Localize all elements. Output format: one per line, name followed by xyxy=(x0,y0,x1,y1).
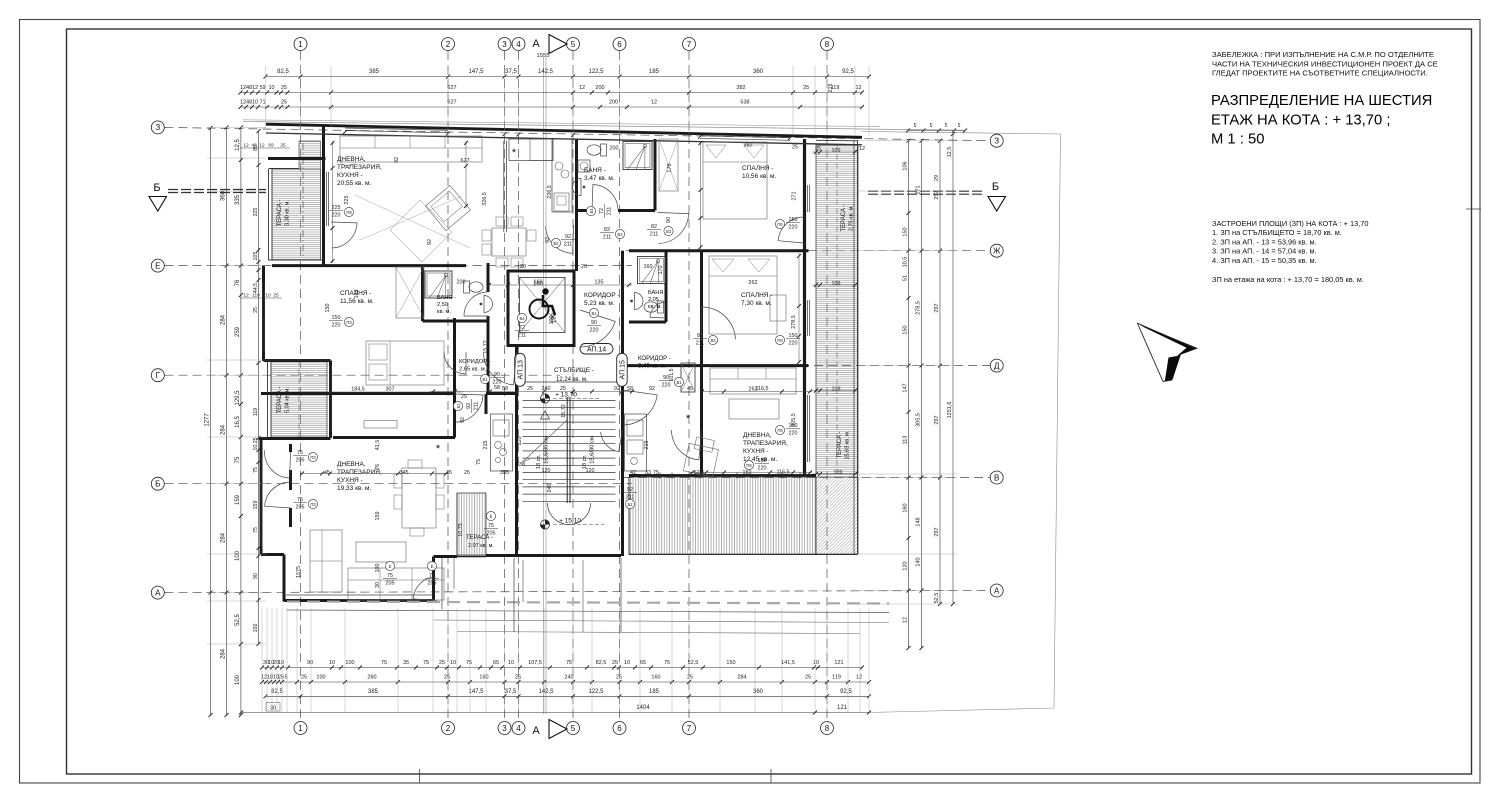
svg-text:БАНЯ -: БАНЯ - xyxy=(437,295,456,301)
svg-text:АП.15: АП.15 xyxy=(620,360,627,379)
svg-text:кв. м.: кв. м. xyxy=(437,309,451,315)
left dim col b xyxy=(240,127,242,715)
svg-text:100: 100 xyxy=(253,624,259,633)
bottom terrace hatch xyxy=(629,477,816,554)
svg-text:100: 100 xyxy=(235,674,241,685)
svg-text:4: 4 xyxy=(516,724,521,733)
svg-text:150: 150 xyxy=(789,333,798,339)
svg-text:382: 382 xyxy=(743,143,752,149)
svg-text:3: 3 xyxy=(502,40,507,49)
toilet bath250 xyxy=(464,281,484,293)
svg-text:25: 25 xyxy=(527,386,533,392)
wall bath347 bottom xyxy=(577,209,593,212)
grid line 1 xyxy=(300,51,302,721)
grid bubble 1 top xyxy=(294,38,307,51)
svg-text:20,55 кв. м.: 20,55 кв. м. xyxy=(337,180,371,187)
svg-text:76: 76 xyxy=(375,464,381,470)
svg-text:284: 284 xyxy=(221,648,227,659)
kitchen14 counter xyxy=(509,139,553,161)
svg-text:ДНЕВНА,: ДНЕВНА, xyxy=(337,461,366,468)
window right 3 xyxy=(807,395,809,462)
svg-text:59: 59 xyxy=(259,85,265,91)
svg-text:100: 100 xyxy=(235,550,241,561)
door kitchen14-corridor xyxy=(546,225,574,253)
svg-text:72: 72 xyxy=(599,208,605,214)
svg-text:Б2: Б2 xyxy=(627,502,633,507)
terrace 5.04 hatch xyxy=(271,360,327,437)
svg-text:45: 45 xyxy=(687,386,693,392)
svg-text:ЕТАЖ НА КОТА : + 13,70 ;: ЕТАЖ НА КОТА : + 13,70 ; xyxy=(1211,113,1390,129)
svg-text:Е: Е xyxy=(155,261,160,270)
grid line Ж right xyxy=(626,250,990,252)
svg-text:25: 25 xyxy=(280,143,286,149)
label AP.13 xyxy=(515,353,526,386)
svg-text:15,6/30 см: 15,6/30 см xyxy=(590,436,596,464)
svg-text:1: 1 xyxy=(298,40,303,49)
svg-text:25: 25 xyxy=(803,85,809,91)
left dim col 1277 xyxy=(210,128,212,715)
interior vchain x700top xyxy=(700,141,702,249)
svg-text:25: 25 xyxy=(273,293,279,299)
grid line 2 xyxy=(447,51,449,721)
svg-text:3,40 кв. м.: 3,40 кв. м. xyxy=(638,364,667,370)
svg-text:215: 215 xyxy=(483,441,489,450)
svg-text:7: 7 xyxy=(687,40,692,49)
svg-text:АП.13: АП.13 xyxy=(518,360,525,379)
svg-text:69: 69 xyxy=(268,143,274,149)
lower slab edge 1 xyxy=(287,610,889,613)
svg-text:25: 25 xyxy=(612,660,618,666)
svg-text:48: 48 xyxy=(251,143,257,149)
svg-text:5,23 кв. м.: 5,23 кв. м. xyxy=(584,300,615,307)
svg-text:П3: П3 xyxy=(346,320,352,325)
window top living room xyxy=(345,128,448,130)
window bottom living 12.45 xyxy=(640,473,812,475)
svg-text:297: 297 xyxy=(934,527,940,536)
svg-text:92: 92 xyxy=(394,157,400,163)
svg-text:Б4: Б4 xyxy=(589,208,594,214)
svg-text:160: 160 xyxy=(534,280,543,286)
bottom dimension row 2 xyxy=(262,681,869,683)
svg-text:82: 82 xyxy=(697,333,703,339)
svg-text:220: 220 xyxy=(758,466,767,472)
wall step terrace2 top xyxy=(264,359,331,362)
svg-text:240: 240 xyxy=(547,484,553,493)
svg-text:П3: П3 xyxy=(310,455,316,460)
svg-text:3,30 кв. м.: 3,30 кв. м. xyxy=(285,200,291,226)
svg-text:160: 160 xyxy=(651,675,660,681)
svg-text:205: 205 xyxy=(296,505,305,511)
svg-text:1555: 1555 xyxy=(537,53,550,59)
svg-text:12: 12 xyxy=(259,143,265,149)
svg-text:12: 12 xyxy=(856,675,862,681)
kitchen15 counter xyxy=(625,414,647,471)
svg-text:В1: В1 xyxy=(591,311,597,316)
svg-text:1277: 1277 xyxy=(205,413,211,427)
svg-text:30: 30 xyxy=(375,582,381,588)
svg-text:6: 6 xyxy=(617,724,622,733)
svg-text:215: 215 xyxy=(644,441,650,450)
svg-text:6: 6 xyxy=(617,40,622,49)
svg-text:КОРИДОР -: КОРИДОР - xyxy=(584,292,620,299)
wall kitchen13 area xyxy=(485,394,488,414)
svg-text:ЧАСТИ НА ТЕХНИЧЕСКИЯ ИНВЕСТИЦИ: ЧАСТИ НА ТЕХНИЧЕСКИЯ ИНВЕСТИЦИОНЕН ПРОЕК… xyxy=(1212,59,1438,68)
svg-text:150: 150 xyxy=(325,304,331,313)
grid bubble В right xyxy=(990,471,1003,484)
wall top exterior xyxy=(266,124,862,137)
level mark 13.70 xyxy=(540,394,549,403)
svg-text:ТЕРАСА -: ТЕРАСА - xyxy=(837,431,843,458)
svg-text:8: 8 xyxy=(825,724,830,733)
svg-text:65: 65 xyxy=(640,660,646,666)
sofa living 20.55 xyxy=(340,136,482,162)
svg-text:10,5: 10,5 xyxy=(903,257,909,268)
interior vchain x332 xyxy=(332,141,334,263)
svg-text:5: 5 xyxy=(945,123,948,129)
svg-text:П6: П6 xyxy=(777,222,783,227)
svg-text:92: 92 xyxy=(565,234,571,240)
wall bottom right apt (В) xyxy=(629,474,816,477)
svg-text:278,5: 278,5 xyxy=(791,315,797,329)
grid bubble 8 bottom xyxy=(821,722,834,735)
label AP.15 xyxy=(617,353,628,386)
wall stair right xyxy=(621,251,624,556)
svg-text:30: 30 xyxy=(270,706,276,712)
door bath250 c xyxy=(464,292,488,316)
svg-text:1251,6: 1251,6 xyxy=(947,402,953,419)
svg-text:92,5: 92,5 xyxy=(842,69,854,75)
washer bath 3.47 xyxy=(578,160,590,172)
svg-text:92: 92 xyxy=(627,487,633,493)
bottom terrace bottom edge xyxy=(629,554,858,556)
svg-text:1. ЗП на СТЪЛБИЩЕТО = 18,70 кв: 1. ЗП на СТЪЛБИЩЕТО = 18,70 кв. м. xyxy=(1212,228,1342,237)
svg-text:кв. м.: кв. м. xyxy=(648,304,662,310)
wall E (living/bedroom left) xyxy=(272,264,466,267)
interior vchain x463 xyxy=(465,141,467,208)
svg-text:10: 10 xyxy=(278,660,284,666)
svg-text:100: 100 xyxy=(345,660,354,666)
svg-text:5: 5 xyxy=(958,123,961,129)
coffee table living 12.45 xyxy=(729,399,779,419)
grid line 7 xyxy=(688,51,690,721)
svg-text:БАНЯ -: БАНЯ - xyxy=(648,290,667,296)
svg-text:Е: Е xyxy=(431,564,434,569)
svg-text:150: 150 xyxy=(758,458,767,464)
svg-text:225: 225 xyxy=(344,196,350,205)
svg-text:8: 8 xyxy=(825,40,830,49)
kitchen13 counter xyxy=(491,414,513,471)
svg-text:12: 12 xyxy=(579,85,585,91)
svg-text:107,5: 107,5 xyxy=(528,660,542,666)
door AP.15 xyxy=(623,390,658,425)
wall Д (corridor bottom / living top) xyxy=(623,364,809,367)
svg-text:*: * xyxy=(512,147,517,159)
svg-text:РАЗПРЕДЕЛЕНИЕ НА ШЕСТИЯ: РАЗПРЕДЕЛЕНИЕ НА ШЕСТИЯ xyxy=(1211,93,1432,109)
svg-text:3: 3 xyxy=(502,724,507,733)
wheelchair symbol xyxy=(530,300,549,319)
svg-text:160: 160 xyxy=(903,503,909,512)
door bedroom 10.56 xyxy=(658,213,689,244)
svg-text:10: 10 xyxy=(624,660,630,666)
svg-text:10,25: 10,25 xyxy=(253,437,259,450)
svg-text:75: 75 xyxy=(429,573,435,579)
wall bath250 right upper xyxy=(487,263,490,292)
sink bath right xyxy=(630,293,643,310)
svg-text:3,47 кв. м.: 3,47 кв. м. xyxy=(584,175,615,182)
svg-text:211: 211 xyxy=(696,341,705,347)
svg-text:205: 205 xyxy=(386,581,395,587)
terrace right dim lines xyxy=(812,151,858,153)
svg-text:148: 148 xyxy=(916,517,922,526)
svg-text:КУХНЯ -: КУХНЯ - xyxy=(337,172,363,179)
fold tick right xyxy=(1466,208,1481,210)
svg-text:105: 105 xyxy=(253,252,259,261)
svg-text:52,5: 52,5 xyxy=(235,614,241,626)
svg-text:135: 135 xyxy=(595,280,604,286)
grid bubble 5 top xyxy=(567,38,580,51)
svg-text:25: 25 xyxy=(281,85,287,91)
wall G right part xyxy=(486,392,517,395)
sofa living 19.33 xyxy=(310,530,342,592)
grid line 5 xyxy=(572,51,574,721)
grid bubble 7 bottom xyxy=(683,722,696,735)
svg-text:10: 10 xyxy=(268,85,274,91)
svg-text:271: 271 xyxy=(916,185,922,194)
svg-text:307: 307 xyxy=(386,387,395,393)
grid bubble 3 bottom xyxy=(498,722,511,735)
label AP.14 xyxy=(580,344,613,355)
svg-text:92: 92 xyxy=(649,386,655,392)
svg-text:185: 185 xyxy=(649,689,660,695)
stair direction triangle xyxy=(541,411,550,419)
door bedroom 11.56 xyxy=(444,352,466,374)
svg-text:В3: В3 xyxy=(710,338,716,343)
wall stair left upper xyxy=(503,141,505,232)
svg-text:10: 10 xyxy=(813,660,819,666)
desk living 12.45 xyxy=(683,436,720,477)
door tag 72/211 bath xyxy=(586,204,612,218)
stair top boundary xyxy=(517,381,623,383)
svg-text:71: 71 xyxy=(259,100,265,106)
svg-text:150: 150 xyxy=(903,227,909,236)
svg-text:2: 2 xyxy=(446,724,451,733)
svg-text:75: 75 xyxy=(653,470,659,476)
left dim col a xyxy=(226,127,228,715)
wall left lower xyxy=(260,438,263,555)
svg-text:200: 200 xyxy=(609,100,618,106)
svg-text:2,65 кв. м.: 2,65 кв. м. xyxy=(459,367,487,373)
door terrace bedroom 10.56 xyxy=(778,217,805,243)
nightstand bedroom 10.56 xyxy=(770,295,786,321)
svg-text:76: 76 xyxy=(235,279,241,286)
svg-text:12,5: 12,5 xyxy=(947,147,953,158)
wall living19 top xyxy=(333,436,455,439)
svg-text:160: 160 xyxy=(479,675,488,681)
svg-text:121: 121 xyxy=(834,660,843,666)
interior hchain y473 xyxy=(300,473,448,475)
svg-text:220: 220 xyxy=(789,431,798,437)
grid bubble Б left xyxy=(151,477,164,490)
grid bubble 1 bottom xyxy=(294,722,307,735)
svg-text:10: 10 xyxy=(450,660,456,666)
wall top-left notch horizontal xyxy=(268,157,326,160)
svg-text:25: 25 xyxy=(515,675,521,681)
svg-text:109: 109 xyxy=(832,148,841,154)
svg-text:147,5: 147,5 xyxy=(468,69,484,75)
svg-text:7,30 кв. м.: 7,30 кв. м. xyxy=(741,300,772,307)
svg-text:211: 211 xyxy=(474,402,480,411)
svg-text:СТЪЛБИЩЕ -: СТЪЛБИЩЕ - xyxy=(554,367,594,374)
door kitchen15 xyxy=(601,430,623,452)
svg-text:92: 92 xyxy=(460,417,466,423)
north arrow xyxy=(1138,324,1198,356)
svg-text:1404: 1404 xyxy=(636,705,650,711)
svg-text:75: 75 xyxy=(253,467,259,473)
svg-text:3. ЗП на АП. - 14 = 57,04 кв.: 3. ЗП на АП. - 14 = 57,04 кв. м. xyxy=(1212,247,1317,256)
table living 20.55 xyxy=(492,228,526,256)
grid line 4 xyxy=(518,51,520,721)
svg-text:Ж: Ж xyxy=(993,247,1001,256)
top wall window marks xyxy=(343,130,347,134)
svg-text:538: 538 xyxy=(740,100,749,106)
bed bedroom 7.30 xyxy=(709,256,777,334)
svg-text:Е: Е xyxy=(490,514,493,519)
svg-text:184,5: 184,5 xyxy=(351,387,365,393)
svg-text:25: 25 xyxy=(464,470,470,476)
shower bath 3.47 xyxy=(623,142,652,170)
svg-text:90: 90 xyxy=(591,320,597,326)
window right 1 xyxy=(807,185,809,212)
svg-text:211: 211 xyxy=(607,207,613,216)
svg-text:БАНЯ -: БАНЯ - xyxy=(584,167,606,174)
svg-text:205: 205 xyxy=(487,531,496,537)
svg-text:240: 240 xyxy=(542,386,551,392)
svg-text:200: 200 xyxy=(457,280,466,286)
grid line В right xyxy=(624,477,990,479)
svg-text:В: В xyxy=(994,473,999,482)
svg-text:КОРИДОР -: КОРИДОР - xyxy=(638,356,671,362)
svg-text:326,5: 326,5 xyxy=(482,192,488,206)
dresser living19 xyxy=(364,421,397,429)
svg-text:35: 35 xyxy=(403,660,409,666)
svg-text:360: 360 xyxy=(221,190,227,201)
terrace 3.30 rail xyxy=(268,169,270,260)
svg-text:Б: Б xyxy=(992,181,999,193)
svg-text:119: 119 xyxy=(832,675,841,681)
svg-text:284: 284 xyxy=(221,532,227,543)
svg-text:259: 259 xyxy=(235,326,241,337)
svg-text:+ 13,70: + 13,70 xyxy=(555,392,577,399)
svg-text:185: 185 xyxy=(649,69,660,75)
svg-text:П6: П6 xyxy=(777,338,783,343)
sofa living 12.45 xyxy=(710,368,796,394)
svg-text:ЗАБЕЛЕЖКА : ПРИ ИЗПЪЛНЕНИЕ НА: ЗАБЕЛЕЖКА : ПРИ ИЗПЪЛНЕНИЕ НА С.М.Р. ПО … xyxy=(1212,50,1434,59)
svg-text:25: 25 xyxy=(687,675,693,681)
svg-text:92: 92 xyxy=(466,403,472,409)
svg-text:75: 75 xyxy=(235,456,241,463)
svg-text:92: 92 xyxy=(545,237,551,243)
terrace 2.75+15.69 hatch xyxy=(816,145,858,474)
svg-text:51: 51 xyxy=(903,275,909,281)
svg-text:1575: 1575 xyxy=(296,566,302,578)
svg-text:116,5: 116,5 xyxy=(755,386,768,392)
svg-text:75: 75 xyxy=(466,660,472,666)
right dim col c xyxy=(939,141,941,604)
svg-text:129,5: 129,5 xyxy=(235,390,241,406)
svg-text:72: 72 xyxy=(519,325,525,331)
grid line Д right xyxy=(618,365,990,367)
svg-text:75: 75 xyxy=(253,527,259,533)
svg-text:278,5: 278,5 xyxy=(916,301,922,315)
toilet bath 3.47 xyxy=(587,144,607,156)
svg-text:+ 15,10: + 15,10 xyxy=(559,518,581,525)
door bedroom 7.30 xyxy=(702,307,736,341)
svg-text:44,5: 44,5 xyxy=(253,283,259,293)
interior dim chain D right xyxy=(700,391,812,393)
wall bath-right block xyxy=(665,251,668,322)
svg-text:90: 90 xyxy=(663,375,669,381)
table living 19.33 xyxy=(402,468,436,528)
svg-text:142,5: 142,5 xyxy=(538,689,554,695)
section line A xyxy=(543,57,545,714)
svg-text:122,5: 122,5 xyxy=(588,69,604,75)
svg-text:16,5: 16,5 xyxy=(235,416,241,428)
top dimension row 3 xyxy=(241,106,863,108)
svg-text:284: 284 xyxy=(221,314,227,325)
svg-text:1: 1 xyxy=(298,724,303,733)
svg-text:220: 220 xyxy=(662,383,671,389)
svg-text:211: 211 xyxy=(650,232,659,238)
svg-text:205: 205 xyxy=(296,458,305,464)
wall Ж (bedrooms right) xyxy=(629,249,809,252)
svg-text:297: 297 xyxy=(934,415,940,424)
svg-text:Д: Д xyxy=(994,361,1000,370)
sink bath 2.50 xyxy=(480,296,493,313)
svg-text:37,5: 37,5 xyxy=(505,69,517,75)
svg-text:СПАЛНЯ -: СПАЛНЯ - xyxy=(742,165,773,172)
wall bath250 right lower xyxy=(487,316,490,394)
wall niche living19 xyxy=(289,444,292,452)
door terrace bottom left xyxy=(413,577,437,601)
elevator shaft xyxy=(508,271,574,346)
svg-text:75: 75 xyxy=(566,660,572,666)
svg-text:92: 92 xyxy=(427,239,433,245)
svg-text:41,5: 41,5 xyxy=(375,440,381,451)
svg-text:СПАЛНЯ -: СПАЛНЯ - xyxy=(741,292,772,299)
svg-text:385: 385 xyxy=(369,69,380,75)
svg-text:100: 100 xyxy=(375,564,381,573)
grid bubble A right xyxy=(990,584,1003,597)
terrace 2.07 hatch xyxy=(457,493,486,555)
door kitchen13 entry xyxy=(455,394,483,422)
terrace right rail xyxy=(857,140,859,555)
wall top-left notch vertical xyxy=(322,126,325,161)
svg-text:122,5: 122,5 xyxy=(588,689,604,695)
door terrace 3.30 xyxy=(331,222,357,248)
svg-text:25: 25 xyxy=(616,675,622,681)
grid bubble 6 top xyxy=(613,38,626,51)
svg-text:15,69 кв. м.: 15,69 кв. м. xyxy=(845,430,851,459)
svg-text:4: 4 xyxy=(516,40,521,49)
svg-text:297: 297 xyxy=(934,190,940,199)
grid line Z xyxy=(165,127,991,140)
svg-text:200: 200 xyxy=(610,146,619,152)
svg-text:5,04 кв. м.: 5,04 кв. м. xyxy=(285,387,291,413)
svg-text:90: 90 xyxy=(253,573,259,579)
grid line 6 xyxy=(619,51,621,721)
svg-text:109: 109 xyxy=(834,470,843,476)
svg-text:109: 109 xyxy=(832,281,841,287)
